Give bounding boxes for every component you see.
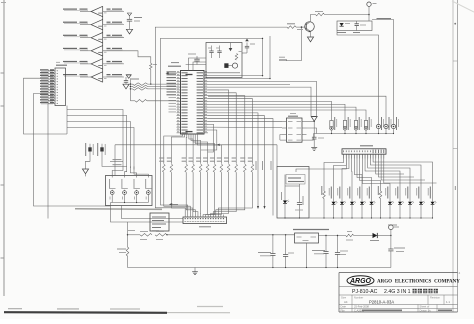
left border zone tick C — [1, 184, 4, 186]
resistor R collector — [316, 13, 325, 16]
junction LED rail — [420, 217, 421, 218]
resistor R24 — [346, 234, 354, 237]
push switch S4 — [145, 179, 147, 188]
sheet left border — [3, 0, 5, 296]
junction rail R — [166, 234, 167, 235]
power box outline — [277, 167, 309, 219]
junction key rail — [344, 133, 345, 134]
right border crossbar 2 — [453, 148, 458, 150]
wire CON30 pin15 spare — [381, 159, 425, 181]
wire ground rail bottom — [128, 267, 391, 269]
bottom scan streak dark — [4, 311, 167, 314]
svg-text:Sheet of: Sheet of — [420, 305, 430, 309]
connector J1 — [55, 68, 66, 106]
capacitor C11 — [312, 136, 317, 138]
left border zone tick D — [1, 257, 4, 259]
wire CON30 pin8 to LED col — [362, 159, 390, 187]
capacitor CX — [194, 58, 199, 60]
LED D13 — [420, 186, 422, 202]
sheet right border inner — [452, 0, 454, 312]
wire collector rail — [325, 14, 370, 16]
wire key row bus 1 — [67, 110, 123, 135]
wire U2 to U3 a — [208, 120, 282, 122]
LED D7 — [361, 186, 363, 202]
wire bundle into S3 — [130, 166, 136, 177]
capacitor C8 — [127, 13, 131, 16]
crystal Y1 — [224, 63, 228, 68]
power box label — [288, 177, 301, 179]
key switch SW3 — [354, 121, 357, 128]
junction key rail — [393, 133, 394, 134]
wire U2 bottom fan 3 — [191, 134, 201, 164]
wire RB1 to CN2 — [164, 172, 191, 214]
wire bundle into S4 — [134, 166, 148, 177]
sheet right border outer — [457, 0, 459, 312]
wire U2 to key1 — [208, 101, 332, 120]
ground arrow in osc block — [230, 43, 232, 49]
capacitor C17 — [390, 236, 392, 250]
svg-text:1.1: 1.1 — [446, 300, 450, 304]
wire buffer to R5 — [124, 51, 151, 64]
wire U2 to key2 — [208, 104, 345, 120]
wire reg gnd — [306, 243, 308, 268]
wire U2 to RB11 — [208, 96, 245, 164]
capacitor CE2 — [101, 144, 103, 158]
buffer column bus — [102, 6, 104, 82]
wire RB6 to CN2 — [203, 172, 208, 214]
power terminal B+ — [389, 225, 394, 230]
wire U3 vcc — [307, 120, 315, 122]
wire osc to U2 top b — [193, 62, 206, 67]
wire RB12 to CN2 — [218, 172, 252, 214]
wire CON30 pin12 to LED col — [373, 159, 432, 187]
svg-text:PJ-810-AC: PJ-810-AC — [352, 289, 378, 295]
wire bundle into S2 — [125, 166, 127, 177]
wire U2 to RB9 — [208, 90, 229, 164]
wire CON30 pin3 to LED col — [342, 159, 349, 187]
LED D4 — [333, 186, 335, 202]
wire main rail left — [128, 234, 141, 236]
junction C15 — [325, 235, 326, 236]
wire power box top — [285, 185, 300, 187]
wire CON30 pin9 to LED col — [365, 159, 400, 187]
wire U2 r3 — [208, 78, 270, 80]
wire base feed — [296, 26, 305, 28]
LED D12 — [409, 186, 411, 202]
junction key rail — [378, 133, 379, 134]
left border zone tick A — [1, 72, 4, 74]
ground at U3 — [313, 145, 315, 148]
top-right scan artifact — [452, 1, 474, 12]
push switch S3 — [133, 179, 135, 188]
capacitor C9 — [125, 77, 127, 81]
LED D10 — [389, 186, 391, 202]
junction LED rail — [399, 217, 400, 218]
U2 pin1 arrow — [166, 72, 169, 74]
wire CON30 pin4 to LED col — [351, 159, 353, 187]
key switch SW6 — [384, 124, 388, 128]
buffer U1B — [91, 19, 103, 29]
ground at Q1 emitter — [310, 32, 312, 37]
resistor R6 — [287, 26, 296, 29]
resistor RB4 — [192, 164, 195, 172]
svg-text:2.4G 3 IN 1: 2.4G 3 IN 1 — [384, 289, 411, 295]
junction bottom rail — [306, 267, 307, 268]
junction key rail — [355, 133, 356, 134]
resistor RB10 — [235, 164, 238, 172]
power flag U3 — [311, 117, 317, 122]
wire RP bus — [129, 78, 131, 101]
wire CON30 pin14 spare — [378, 159, 414, 178]
microcontroller U2 — [181, 71, 205, 135]
wire sig stub 1 — [208, 113, 258, 206]
wire U3 out right — [307, 128, 317, 134]
wire module feed horizontal — [115, 144, 277, 146]
wire CON30 pin5 to LED col — [354, 159, 362, 187]
junction aux1 — [262, 38, 263, 39]
key switch SW7 — [391, 124, 395, 128]
wire U3 stub d — [280, 139, 282, 141]
wire power box drop — [276, 145, 278, 167]
wire left rail B — [34, 94, 111, 207]
left border zone tick B — [1, 105, 4, 107]
power terminal VCC — [367, 2, 371, 6]
svg-text:Number: Number — [354, 295, 363, 299]
wire bundle drop 4 — [133, 134, 135, 170]
oscillator block outline — [206, 43, 242, 78]
resistor RD1 — [323, 191, 326, 199]
connector CON30 — [342, 149, 386, 154]
resistor RB5 — [199, 164, 202, 172]
wire switch common — [112, 202, 148, 204]
net stub row 2 — [110, 165, 127, 167]
wire aux vertical 1 — [262, 38, 264, 75]
svg-text:ARGO: ARGO — [349, 278, 372, 285]
wire module feed corner — [114, 145, 116, 176]
transistor Q1 — [305, 22, 315, 32]
wire sig stair 1 — [208, 124, 214, 152]
wire LED bank rail — [285, 217, 433, 219]
junction C13 — [272, 234, 273, 235]
wire RB7 to CN2 — [206, 172, 215, 214]
wire CON30 pin10 to LED col — [368, 159, 410, 187]
switch box outline — [106, 176, 153, 206]
regulator label — [293, 229, 329, 231]
encoder U3 — [287, 118, 303, 142]
key switch SW2 — [343, 121, 346, 128]
wire RB2 to CN2 — [171, 172, 192, 214]
wire aux drop — [337, 31, 379, 122]
junction LED rail — [299, 217, 300, 218]
junction R23 top — [127, 234, 128, 235]
resistor RB7 — [213, 164, 216, 172]
R network labels — [128, 230, 135, 232]
svg-text:Date: Date — [341, 305, 347, 309]
junction key rail — [331, 133, 332, 134]
resistor RP3 — [133, 88, 148, 91]
wire sig stub 2 — [208, 116, 265, 206]
U2 left pin names — [167, 71, 177, 73]
wire rail to LED loop — [368, 15, 370, 22]
wire R5 down — [150, 69, 152, 84]
bottom margin marks b — [57, 308, 79, 310]
wire U2 bottom fan 5 — [195, 134, 214, 164]
capacitor C16 — [337, 236, 339, 253]
right border dot — [454, 23, 456, 25]
wire U2 bottom fan 4 — [193, 134, 208, 164]
ARGO logo — [347, 276, 374, 286]
resistor RP1 — [133, 83, 148, 86]
top-left corner tick — [1, 2, 6, 4]
wire U2 r1 — [208, 72, 240, 74]
resistor RB3 — [185, 164, 188, 172]
junction B+ — [390, 235, 391, 236]
wire key common rail — [314, 133, 394, 135]
wire rail mid — [167, 234, 295, 236]
wire bundle drop 3 — [129, 134, 131, 168]
capacitor C13 — [272, 235, 274, 254]
junction LED rail — [351, 217, 352, 218]
connector CN2 — [183, 217, 227, 224]
resistor RB2 — [170, 164, 173, 172]
net label KEYBoardLedIn — [377, 18, 392, 20]
wire CON30 pin6 to LED col — [357, 159, 372, 187]
junction LED rail — [284, 217, 285, 218]
wire U2 to RB12 — [208, 99, 252, 164]
wire U2 to RB10 — [208, 93, 236, 164]
diode D20 — [373, 233, 378, 238]
right border crossbar 1 — [453, 60, 458, 62]
LED D5 — [341, 186, 343, 202]
wire RB5 to CN2 — [200, 172, 202, 214]
ground at CE1 — [85, 164, 87, 169]
LED D11 — [399, 186, 401, 202]
wire lower feed — [286, 27, 302, 60]
net stub row 1 — [110, 160, 123, 162]
junction LED rail — [323, 217, 324, 218]
wire bundle into S1 — [112, 161, 123, 177]
resistor RB8 — [220, 164, 223, 172]
resistor RD7 — [379, 191, 382, 199]
junction collector rail — [368, 14, 370, 16]
module X1 — [150, 213, 169, 231]
junction LED rail — [371, 217, 372, 218]
svg-text:P2810-A-03A: P2810-A-03A — [369, 299, 394, 304]
resistor R21 — [140, 234, 152, 237]
junction key rail — [365, 133, 366, 134]
svg-text:Size: Size — [341, 295, 347, 299]
wire U2 r6 — [208, 87, 311, 116]
capacitor C7 with power flag — [246, 43, 248, 47]
resistor RP4 — [135, 100, 147, 103]
junction LED rail — [341, 217, 342, 218]
resistor RB9 — [227, 164, 230, 172]
wire key row bus 3 — [67, 122, 130, 135]
wire CON30 pin2 to LED col — [334, 159, 347, 187]
wire RB9 to CN2 — [211, 172, 229, 214]
wire U2 to key3 — [208, 107, 356, 120]
wire bundle drop 1 — [122, 134, 124, 161]
wire CON30 pin1 to LED col — [324, 159, 344, 187]
junction C16 — [337, 235, 338, 236]
resistor RB12 — [251, 164, 254, 172]
junction base — [301, 26, 303, 28]
arrow into connector — [169, 203, 172, 205]
wire RB11 to CN2 — [216, 172, 245, 214]
wire U3 gnd rail — [307, 139, 314, 141]
bottom scan streak gray tail — [167, 312, 230, 314]
title block frame — [339, 272, 458, 274]
junction key rail — [385, 133, 386, 134]
wire switch rail drop b — [122, 206, 184, 219]
power flag RP — [126, 75, 131, 79]
wire sig stair 2 — [201, 130, 217, 150]
wire key row bus 4 — [67, 128, 134, 135]
net label SW in 2 — [279, 59, 287, 61]
wire reg to diode — [354, 235, 373, 237]
wire fan left a — [164, 134, 183, 164]
right border zone letter — [454, 186, 456, 190]
wire rail feed from CN2 — [127, 222, 129, 235]
wire U2 to key4 — [208, 110, 366, 121]
resistor R22 — [155, 234, 167, 237]
wire U2 to U3 b — [208, 126, 282, 128]
wire RB3 to CN2 — [186, 172, 195, 214]
wire fan left b — [171, 134, 184, 164]
resistor RB6 — [206, 164, 209, 172]
LED D6 — [351, 186, 353, 202]
LED rail note — [388, 224, 397, 226]
wire osc long run — [160, 38, 262, 214]
LED D8 — [371, 186, 373, 202]
ground at bottom rail — [194, 268, 196, 270]
bottom margin marks a — [8, 308, 22, 310]
junction LED rail — [409, 217, 410, 218]
resistor R5 — [150, 63, 153, 69]
diode D1 — [340, 23, 344, 26]
wire U2 r2 — [208, 75, 263, 77]
wire RB10 to CN2 — [213, 172, 236, 214]
wire switch rail drop a — [111, 203, 184, 223]
wire collector up — [311, 15, 316, 22]
capacitor C14 — [285, 235, 287, 255]
key switch SW5 — [376, 124, 380, 128]
wire U2 r5 — [208, 83, 290, 85]
capacitor CE1 — [89, 144, 91, 158]
sig stub labels — [255, 161, 257, 170]
wire RB4 to CN2 — [193, 172, 198, 214]
capacitor C15 — [325, 236, 327, 252]
wire keyboard led — [372, 20, 394, 122]
regulator U5 — [295, 233, 319, 243]
wire reg out rail — [319, 235, 346, 237]
wire key row bus 2 — [67, 116, 127, 135]
junction r3 — [269, 78, 270, 79]
wire CON30 pin16 spare — [384, 159, 437, 184]
wire base long run — [155, 27, 287, 214]
junction LED rail — [432, 217, 433, 218]
wire U3 stub c — [280, 135, 282, 140]
LED loop frame — [337, 21, 372, 31]
wire CON30 pin7 to LED col — [360, 159, 381, 187]
svg-text:25-Feb-2008: 25-Feb-2008 — [354, 305, 369, 309]
ground at C9 — [123, 84, 129, 89]
junction U3 vcc — [314, 121, 315, 122]
wire J1 bottom drop — [47, 103, 49, 218]
ground at C8 — [126, 29, 132, 34]
junction LED rail — [389, 217, 390, 218]
svg-text:File: File — [341, 308, 346, 312]
capacitor C5 — [211, 46, 213, 51]
wire sig stub 3 — [208, 119, 273, 216]
svg-text:A4: A4 — [344, 300, 348, 304]
LED D14 — [432, 186, 434, 202]
wire CE join — [86, 158, 91, 164]
wire U2 bottom fan 2 — [189, 134, 193, 164]
wire J1 stub down — [66, 106, 68, 135]
wire RB8 to CN2 — [208, 172, 221, 214]
junction LED rail — [361, 217, 362, 218]
resistor RB11 — [244, 164, 247, 172]
wire U2 bottom fan 1 — [185, 134, 188, 164]
capacitor C10 — [355, 23, 359, 25]
junction LED rail — [380, 217, 381, 218]
junction C14 — [285, 234, 286, 235]
LED D2 — [284, 186, 286, 201]
wire U2 to key5 — [208, 96, 386, 121]
bottom margin marks d — [197, 306, 223, 308]
buffer U1D — [91, 46, 103, 56]
buffer U1C — [91, 33, 103, 43]
wire left rail A — [24, 78, 68, 134]
junction LED rail — [333, 217, 334, 218]
wire bundle drop 2 — [126, 134, 128, 166]
junction r2 — [262, 75, 263, 76]
capacitor C12 — [299, 184, 301, 203]
svg-text:ARGO ELECTRONICS COMPANY: ARGO ELECTRONICS COMPANY — [377, 279, 460, 284]
buffer U1F — [91, 72, 103, 82]
resistor RP2 — [133, 85, 148, 88]
push switch S1 — [109, 179, 111, 188]
scan crease — [75, 208, 162, 211]
svg-text:Drawn By: Drawn By — [420, 308, 432, 312]
bottom margin marks c — [110, 308, 140, 310]
capacitor C6 — [219, 46, 221, 51]
resistor R23 — [127, 235, 129, 247]
resistor RB1 — [163, 164, 166, 172]
wire U2 bottom fan 6 — [197, 134, 221, 164]
wire CON30 pin11 to LED col — [370, 159, 421, 187]
buffer U1A — [91, 6, 103, 16]
buffer U1E — [91, 59, 103, 69]
resistor R osc — [235, 54, 238, 61]
wire aux vertical 2 — [269, 36, 271, 79]
wire CON30 feed — [296, 159, 346, 173]
wire U2 r4 — [208, 81, 317, 117]
push switch S2 — [121, 179, 123, 188]
key switch SW1 — [330, 121, 333, 128]
key switch SW4 — [364, 121, 367, 128]
svg-text:Revision: Revision — [430, 295, 441, 299]
wire CON30 pin13 spare — [376, 159, 404, 175]
wire xtal run — [186, 64, 206, 66]
wire osc to U2 top a — [189, 58, 207, 67]
